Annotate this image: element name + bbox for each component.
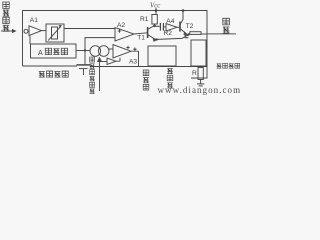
svg-text:A3: A3 bbox=[129, 59, 137, 66]
svg-text:A4: A4 bbox=[166, 18, 174, 25]
svg-text:T1: T1 bbox=[137, 34, 145, 41]
svg-text:R: R bbox=[192, 70, 197, 77]
svg-text:R1: R1 bbox=[140, 16, 149, 23]
svg-text:A2: A2 bbox=[117, 22, 125, 29]
svg-text:Vcc: Vcc bbox=[150, 2, 160, 9]
svg-text:A: A bbox=[38, 50, 43, 57]
svg-text:A1: A1 bbox=[30, 17, 38, 24]
svg-text:R2: R2 bbox=[164, 30, 173, 37]
svg-text:www.diangon.com: www.diangon.com bbox=[158, 85, 241, 95]
svg-text:T2: T2 bbox=[186, 23, 194, 30]
